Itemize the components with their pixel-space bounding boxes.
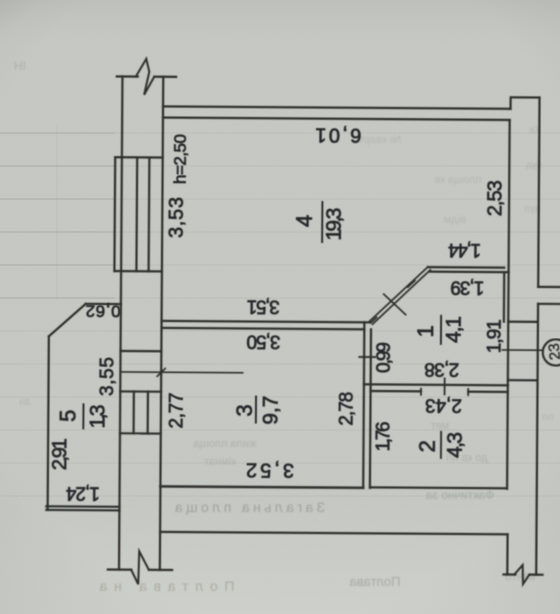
balcony diagonal [49, 304, 86, 337]
svg-text:зн: зн [19, 396, 30, 408]
window W1 sill bottom [114, 270, 161, 273]
svg-text:ІН: ІН [14, 59, 26, 73]
entrance diagonal wall (double) [370, 267, 428, 322]
niche bottom line [508, 379, 538, 381]
ghost ruled lines from back of page [0, 125, 560, 496]
svg-text:3,52: 3,52 [246, 458, 294, 480]
bottom right corner wall [506, 534, 508, 574]
balcony window sill mid [120, 390, 161, 392]
wire: left wall inner line [160, 77, 163, 570]
svg-text:відм: відм [444, 214, 466, 226]
svg-text:1,3: 1,3 [86, 404, 109, 428]
right outer wall lower [536, 304, 538, 575]
balcony window sill bottom [120, 432, 161, 434]
tick on room2/3 wall [359, 356, 375, 358]
svg-text:6,01: 6,01 [315, 123, 361, 145]
right outer wall upper [538, 98, 539, 287]
svg-text:23: 23 [546, 343, 560, 361]
svg-text:мет: мет [431, 420, 449, 432]
balcony top edge [86, 303, 121, 305]
room1 top wall [428, 266, 504, 269]
svg-text:1,24: 1,24 [65, 482, 100, 503]
svg-text:1,44: 1,44 [448, 239, 482, 260]
svg-text:2,43: 2,43 [425, 394, 462, 415]
break symbol bottom-left [131, 551, 149, 584]
window W1 sill top [115, 156, 162, 159]
svg-text:вул: вул [524, 204, 540, 215]
tick on 3,55 leader [157, 368, 165, 376]
svg-text:5: 5 [55, 410, 80, 422]
svg-text:0,62: 0,62 [86, 301, 121, 320]
svg-text:2,77: 2,77 [166, 392, 187, 428]
jamb tick at diagonal lower end [371, 317, 377, 323]
svg-text:0,99: 0,99 [374, 342, 395, 373]
corridor wall lower line (door gap) [371, 390, 421, 393]
break symbol top [136, 59, 155, 95]
svg-text:2,78: 2,78 [336, 392, 357, 426]
corridor wall upper line [364, 384, 508, 385]
svg-text:Полтава: Полтава [349, 574, 401, 589]
svg-text:3: 3 [232, 404, 257, 416]
svg-text:площа кв: площа кв [434, 174, 482, 186]
room 4 / room 3 wall [162, 321, 370, 322]
top-right step [511, 97, 540, 109]
inner right wall (long) [507, 120, 510, 489]
svg-text:2,53: 2,53 [484, 180, 506, 216]
svg-text:взято: взято [505, 569, 536, 583]
svg-text:жила площа: жила площа [193, 438, 257, 450]
svg-text:2: 2 [415, 440, 440, 452]
bottom-left wall cap [108, 568, 131, 570]
balcony window glazing [132, 392, 134, 434]
svg-text:2,91: 2,91 [49, 438, 71, 470]
svg-text:4,3: 4,3 [444, 432, 467, 458]
leader to meter [502, 349, 543, 351]
jamb tick on diagonal [408, 281, 415, 288]
bottom outer wall [160, 532, 507, 534]
svg-text:Загальна площа: Загальна площа [175, 499, 325, 515]
svg-text:h=2,50: h=2,50 [171, 134, 190, 184]
top wall outer line [163, 106, 510, 108]
room2 bottom wall [370, 486, 507, 489]
svg-text:3,53: 3,53 [166, 197, 188, 238]
room3 bottom wall [160, 486, 363, 487]
svg-text:пл: пл [542, 412, 553, 423]
dimension leader 3,55 [120, 371, 242, 374]
window W1 outer face [113, 157, 116, 271]
door jamb ticks [420, 389, 422, 395]
svg-text:1,76: 1,76 [373, 421, 394, 451]
svg-text:№ кварт: № кварт [359, 134, 401, 146]
break symbol bottom-right [514, 565, 529, 584]
dim tick on corridor wall [444, 378, 446, 394]
svg-text:Фактично за: Фактично за [425, 488, 494, 502]
balcony door sill [121, 350, 162, 352]
svg-text:2,38: 2,38 [424, 358, 459, 379]
svg-text:3,55: 3,55 [97, 357, 118, 396]
svg-text:1,91: 1,91 [484, 319, 505, 353]
right wall stub A [538, 286, 560, 288]
wire: left wall outer line [119, 77, 122, 570]
window W1 glazing lines [135, 157, 138, 271]
svg-text:кімнат: кімнат [204, 456, 236, 468]
room1 right wall double [503, 272, 506, 321]
wire: left wall top cap [117, 75, 138, 77]
svg-text:3,50: 3,50 [246, 330, 280, 351]
balcony bottom double [46, 505, 119, 508]
svg-text:4: 4 [292, 215, 317, 227]
svg-text:4,1: 4,1 [442, 316, 465, 343]
svg-text:19,3: 19,3 [323, 208, 346, 241]
svg-text:9,7: 9,7 [259, 396, 282, 425]
right wall stub B [538, 303, 560, 305]
electric meter circle [543, 339, 560, 365]
room2/3 wall [363, 322, 364, 487]
top wall inner line [163, 117, 510, 119]
svg-text:1,39: 1,39 [450, 276, 484, 297]
door leaf on diagonal [384, 294, 406, 314]
svg-text:3,51: 3,51 [247, 295, 280, 316]
svg-text:1: 1 [413, 325, 438, 337]
niche top [508, 321, 538, 323]
bottom-right cap [503, 573, 515, 575]
balcony left edge [48, 336, 49, 510]
